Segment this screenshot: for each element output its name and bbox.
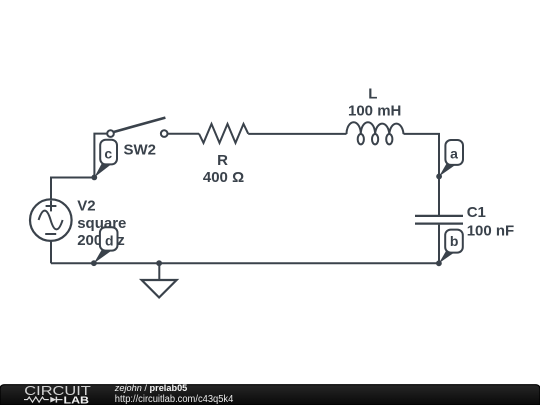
label C1 value 100 nF [467,204,515,240]
svg-text:100 mH: 100 mH [348,102,401,119]
svg-text:400 Ω: 400 Ω [203,169,244,186]
wire: V2 positive terminal up and right to node c junction [51,178,94,200]
wire: node c junction up to switch left terminal [94,134,107,179]
node c [91,140,117,181]
inductor L [347,122,404,144]
footer text: author / title [114,383,188,394]
wire: switch to resistor [168,133,200,135]
label SW2 [124,142,157,159]
CircuitLab logo: resistor zigzag and diode [24,397,63,403]
label R value 400 ohm [203,152,244,186]
svg-text:b: b [450,233,459,249]
label L value 100 mH [348,86,401,120]
svg-text:C1: C1 [467,204,486,221]
capacitor C1 [415,216,463,224]
resistor R [199,124,248,143]
svg-text:http://circuitlab.com/c43q5k4: http://circuitlab.com/c43q5k4 [115,394,234,405]
wire: inductor right to top-right corner down to capacitor [404,134,440,215]
svg-text:d: d [105,233,114,249]
node b [436,230,463,267]
svg-text:L: L [368,86,377,103]
wire: resistor to inductor [248,133,346,135]
voltage source V2 [30,199,72,241]
wire: V2 negative terminal down to bottom rail [50,242,52,264]
wire: capacitor bottom to node b junction [438,225,440,264]
svg-text:V2: V2 [77,198,95,215]
node d [91,227,118,266]
svg-text:100 nF: 100 nF [467,223,515,240]
svg-text:c: c [104,146,112,162]
ground [142,260,177,297]
svg-text:R: R [217,152,228,169]
CircuitLab logo: CIRCUIT [24,383,91,398]
svg-text:a: a [450,146,458,162]
CircuitLab logo: LAB [64,395,90,405]
footer bar [0,385,540,405]
svg-text:SW2: SW2 [124,142,157,159]
footer text: url [115,394,234,405]
svg-text:zejohn / prelab05: zejohn / prelab05 [114,383,188,394]
wire: bottom rail [51,262,439,264]
label V2 square 200 Hz [77,198,126,250]
switch SW2 [107,118,167,137]
svg-text:LAB: LAB [64,395,90,405]
node a [436,140,463,179]
